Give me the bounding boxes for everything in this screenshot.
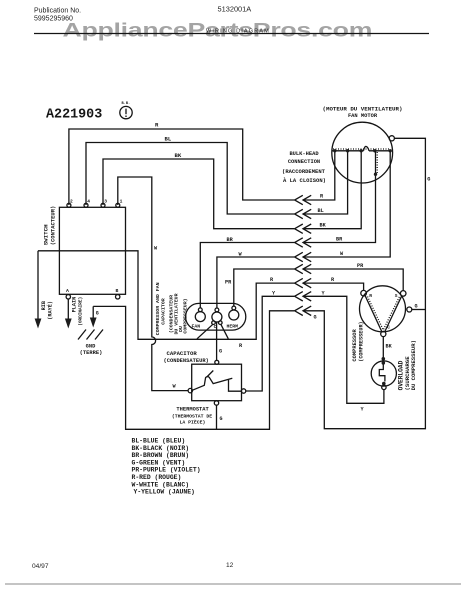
overload bimetal element bbox=[379, 365, 385, 382]
svg-text:BK: BK bbox=[320, 223, 327, 229]
thermostat top terminal bbox=[215, 360, 219, 364]
label BK top bbox=[175, 152, 182, 159]
capacitor name label bbox=[164, 350, 209, 364]
compressor M2 bbox=[360, 286, 406, 332]
switch pin terminal 1 bbox=[116, 199, 123, 208]
label R2 near capacitor bbox=[239, 343, 243, 349]
svg-text:(COMPRESSEUR): (COMPRESSEUR) bbox=[359, 321, 365, 361]
svg-text:GND: GND bbox=[86, 344, 96, 350]
svg-text:BR: BR bbox=[336, 237, 343, 243]
bulkhead connector 5 W bbox=[295, 252, 312, 261]
compressor G wire bbox=[412, 309, 426, 311]
svg-text:Publication No.: Publication No. bbox=[34, 8, 81, 15]
rib neutral wire to capacitor common bbox=[38, 251, 294, 339]
wire BL from switch pin 4 to bulkhead bbox=[86, 143, 294, 215]
svg-text:FAN: FAN bbox=[192, 324, 201, 330]
label W mid bbox=[154, 246, 158, 252]
thermostat bottom terminal bbox=[214, 401, 218, 405]
svg-text:W: W bbox=[340, 251, 344, 257]
svg-text:LA PIÈCE): LA PIÈCE) bbox=[180, 419, 206, 426]
gnd lead arrow bbox=[90, 306, 97, 327]
svg-text:(THERMOSTAT DE: (THERMOSTAT DE bbox=[172, 413, 212, 419]
watermark bbox=[63, 19, 373, 40]
wire Y bulkhead to thermostat right bbox=[246, 296, 294, 391]
svg-text:A: A bbox=[66, 288, 69, 294]
bulkhead connector 4 BR bbox=[295, 238, 312, 247]
svg-text:Y: Y bbox=[272, 291, 276, 297]
label PR right bbox=[357, 263, 364, 269]
svg-text:BULK-HEAD: BULK-HEAD bbox=[289, 151, 319, 157]
svg-text:(TERRE): (TERRE) bbox=[80, 350, 103, 356]
overload label bbox=[398, 340, 418, 390]
bulkhead connector 8 Y bbox=[295, 292, 312, 301]
svg-text:S: S bbox=[395, 293, 398, 299]
svg-text:À LA CLOISON): À LA CLOISON) bbox=[283, 177, 326, 184]
capacitor C1 body bbox=[186, 303, 246, 330]
label BK overload bbox=[386, 344, 393, 350]
fan motor aux winding bbox=[374, 151, 377, 176]
svg-text:THERMOSTAT: THERMOSTAT bbox=[176, 407, 209, 413]
wire BK bulkhead to fan motor bbox=[303, 151, 361, 229]
svg-text:G: G bbox=[219, 349, 222, 355]
label R top bbox=[155, 122, 159, 129]
label G right vertical bbox=[427, 177, 430, 183]
svg-text:COMPRESSOR: COMPRESSOR bbox=[352, 328, 358, 361]
svg-text:R: R bbox=[320, 194, 324, 200]
svg-text:3: 3 bbox=[104, 199, 107, 205]
svg-text:PR: PR bbox=[225, 280, 232, 286]
label W at thermostat bbox=[173, 384, 177, 390]
label BR right bbox=[336, 237, 343, 243]
svg-text:PR-PURPLE (VIOLET): PR-PURPLE (VIOLET) bbox=[132, 467, 201, 474]
terminal A bbox=[66, 288, 71, 299]
fan motor winding taps bbox=[333, 149, 392, 152]
header title bbox=[206, 29, 270, 35]
overload top terminal dots bbox=[382, 357, 386, 365]
wire R bulkhead to fan motor bbox=[303, 151, 335, 200]
compressor C terminal bbox=[381, 331, 386, 336]
plain lead wire with arrow bbox=[65, 299, 72, 329]
thermostat bottom ground stub bbox=[216, 405, 218, 429]
terminal B bbox=[116, 288, 120, 299]
label G right of chevron bbox=[314, 315, 317, 321]
svg-text:BL: BL bbox=[165, 136, 172, 143]
thermostat box bbox=[192, 364, 242, 401]
svg-text:BK: BK bbox=[386, 344, 393, 350]
svg-text:Y: Y bbox=[322, 291, 326, 297]
svg-text:BR-BROWN (BRUN): BR-BROWN (BRUN) bbox=[132, 452, 190, 459]
bulkhead connector 1 R bbox=[295, 195, 312, 204]
label G capacitor bbox=[219, 349, 222, 355]
svg-text:SWITCH: SWITCH bbox=[43, 224, 50, 245]
wire BR bulkhead to capacitor FAN bbox=[200, 243, 294, 309]
switch SW1 box bbox=[59, 207, 125, 294]
switch pin terminal 2 bbox=[67, 199, 73, 208]
svg-text:C: C bbox=[387, 324, 390, 330]
svg-text:RIB: RIB bbox=[41, 301, 47, 310]
compressor run winding bbox=[365, 296, 383, 332]
svg-text:B.B.: B.B. bbox=[122, 102, 131, 106]
svg-text:1: 1 bbox=[120, 199, 123, 205]
svg-text:W-WHITE (BLANC): W-WHITE (BLANC) bbox=[132, 481, 190, 488]
thermostat switch blade bbox=[193, 371, 242, 392]
svg-text:Y: Y bbox=[361, 407, 365, 413]
wire BK from switch pin 3 to bulkhead bbox=[103, 159, 294, 229]
svg-text:B: B bbox=[116, 288, 119, 294]
fan motor main winding bbox=[333, 146, 392, 150]
label W left bbox=[239, 252, 243, 258]
svg-text:(CONDENSATEUR): (CONDENSATEUR) bbox=[164, 358, 209, 364]
capacitor vertical label block bbox=[155, 282, 189, 335]
svg-text:G: G bbox=[427, 177, 430, 183]
label Y left bbox=[272, 291, 276, 297]
bulkhead connector 7 R bbox=[295, 278, 312, 287]
svg-text:COMPRESSEUR): COMPRESSEUR) bbox=[183, 298, 189, 333]
header publication number bbox=[34, 8, 81, 23]
compressor G terminal bbox=[407, 307, 412, 312]
wire R from switch pin 2 to bulkhead bbox=[69, 129, 294, 205]
header part number bbox=[218, 5, 252, 14]
svg-text:CONNECTION: CONNECTION bbox=[288, 159, 320, 165]
svg-text:R: R bbox=[155, 122, 159, 129]
svg-text:R: R bbox=[239, 343, 243, 349]
svg-text:(RAYÉ): (RAYÉ) bbox=[47, 301, 54, 320]
svg-text:12: 12 bbox=[226, 562, 234, 569]
wire PR bulkhead to capacitor HERM bbox=[234, 269, 294, 306]
label Y bottom bbox=[361, 407, 365, 413]
svg-text:W: W bbox=[154, 246, 158, 252]
footer date bbox=[32, 563, 49, 570]
color legend bbox=[132, 438, 201, 496]
svg-text:4: 4 bbox=[87, 199, 90, 205]
footer page number bbox=[226, 562, 234, 569]
svg-text:Y-YELLOW (JAUNE): Y-YELLOW (JAUNE) bbox=[134, 489, 195, 496]
svg-text:G: G bbox=[220, 416, 223, 422]
label PR left bbox=[225, 280, 232, 286]
svg-text:COMPRESSOR AND FAN: COMPRESSOR AND FAN bbox=[155, 282, 161, 335]
ground symbol bbox=[78, 330, 103, 340]
svg-text:(ORDINAIRE): (ORDINAIRE) bbox=[79, 297, 84, 326]
switch pin terminal 4 bbox=[84, 199, 90, 208]
label RIB (RAYE) bbox=[41, 301, 54, 320]
svg-text:G-GREEN (VENT): G-GREEN (VENT) bbox=[132, 459, 186, 466]
capacitor common diagonals bbox=[197, 324, 228, 339]
label Y right bbox=[322, 291, 326, 297]
wire W bulkhead to fan motor bbox=[303, 151, 390, 257]
svg-text:W: W bbox=[173, 384, 177, 390]
svg-text:PLAIN: PLAIN bbox=[72, 297, 78, 313]
overload protector bbox=[371, 361, 396, 386]
svg-text:HERM: HERM bbox=[227, 324, 239, 330]
svg-text:04/97: 04/97 bbox=[32, 563, 49, 570]
svg-text:FAN MOTOR: FAN MOTOR bbox=[348, 113, 378, 119]
svg-text:DU COMPRESSEUR): DU COMPRESSEUR) bbox=[410, 340, 417, 390]
bulkhead label bbox=[282, 151, 326, 184]
label GND (TERRE) bbox=[80, 344, 103, 357]
svg-text:A221903: A221903 bbox=[46, 108, 102, 123]
label G below thermostat bbox=[220, 416, 223, 422]
svg-text:G: G bbox=[415, 304, 418, 310]
compressor R terminal bbox=[361, 290, 367, 296]
svg-text:(RACCORDEMENT: (RACCORDEMENT bbox=[282, 168, 326, 175]
diagram id A221903 bbox=[46, 108, 102, 123]
svg-text:BK-BLACK (NOIR): BK-BLACK (NOIR) bbox=[132, 445, 190, 452]
green ground wire left network bbox=[93, 306, 294, 429]
capacitor common to thermostat G wire bbox=[216, 322, 218, 360]
fan motor M1 bbox=[332, 122, 393, 183]
wire BR bulkhead to fan aux winding bbox=[303, 174, 375, 242]
compressor S terminal bbox=[400, 291, 406, 297]
overload bottom terminal bbox=[382, 382, 386, 390]
label R2 left bbox=[270, 277, 274, 283]
wire W from switch pin 1 with hop to thermostat left bbox=[118, 177, 188, 391]
label G compressor bbox=[415, 304, 418, 310]
wire compressor C to overload BK bbox=[382, 337, 384, 359]
footer rule bbox=[5, 583, 461, 585]
wire Y bulkhead to overload bbox=[303, 296, 384, 403]
svg-text:CAPACITOR: CAPACITOR bbox=[167, 350, 198, 357]
thermostat left terminal bbox=[188, 388, 192, 392]
green ground wire right network bbox=[303, 138, 425, 428]
svg-text:(MOTEUR DU VENTILATEUR): (MOTEUR DU VENTILATEUR) bbox=[322, 106, 402, 113]
wire R2 bulkhead to compressor R bbox=[303, 283, 363, 290]
compressor start winding bbox=[383, 296, 402, 331]
fan motor frame terminal bbox=[389, 136, 394, 141]
capacitor terminal labels bbox=[192, 324, 239, 331]
svg-text:R-RED (ROUGE): R-RED (ROUGE) bbox=[132, 474, 182, 481]
capacitor HERM terminal bbox=[229, 306, 239, 320]
rib lead arrow bbox=[35, 251, 42, 329]
switch pin terminal 3 bbox=[101, 199, 107, 208]
svg-text:R: R bbox=[270, 277, 274, 283]
thermostat label bbox=[172, 407, 212, 426]
svg-text:R: R bbox=[331, 277, 335, 283]
wire W bulkhead to capacitor common bbox=[217, 257, 294, 308]
thermostat right terminal bbox=[241, 389, 245, 393]
svg-text:PR: PR bbox=[357, 263, 364, 269]
svg-text:2: 2 bbox=[70, 199, 73, 205]
label BK right bbox=[320, 223, 327, 229]
bulkhead connector 6 PR bbox=[295, 264, 312, 273]
label G at gnd arrow bbox=[96, 311, 99, 317]
fan motor label bbox=[322, 106, 402, 120]
label W right bbox=[340, 251, 344, 257]
header rule bbox=[34, 33, 429, 35]
label R right bbox=[320, 194, 324, 200]
svg-text:G: G bbox=[96, 311, 99, 317]
capacitor common terminal bbox=[212, 308, 222, 325]
bulkhead connector 9 G bbox=[295, 306, 312, 315]
svg-text:BL-BLUE (BLEU): BL-BLUE (BLEU) bbox=[132, 438, 186, 445]
label PLAIN (ORDINAIRE) bbox=[72, 297, 84, 326]
label R2 right bbox=[331, 277, 335, 283]
svg-text:BL: BL bbox=[318, 208, 324, 214]
svg-text:R: R bbox=[369, 293, 372, 299]
svg-text:BK: BK bbox=[175, 152, 182, 159]
compressor terminal letters bbox=[369, 293, 398, 331]
label BL top bbox=[165, 136, 172, 143]
wire PR bulkhead to compressor S bbox=[303, 269, 403, 291]
svg-text:(CONTACTEUR): (CONTACTEUR) bbox=[50, 206, 57, 246]
capacitor FAN terminal bbox=[195, 308, 205, 322]
bulkhead connector 3 BK bbox=[295, 224, 312, 233]
note icon circled 1 bbox=[120, 102, 132, 119]
svg-text:CAPACITOR: CAPACITOR bbox=[160, 298, 166, 324]
label BL right bbox=[318, 208, 324, 214]
svg-text:5132001A: 5132001A bbox=[218, 5, 252, 14]
label BR left bbox=[227, 237, 234, 243]
wire BL bulkhead to fan motor bbox=[303, 151, 347, 214]
svg-text:G: G bbox=[314, 315, 317, 321]
compressor label bbox=[352, 321, 365, 361]
bulkhead connector 2 BL bbox=[295, 209, 312, 218]
switch label bbox=[43, 206, 57, 246]
